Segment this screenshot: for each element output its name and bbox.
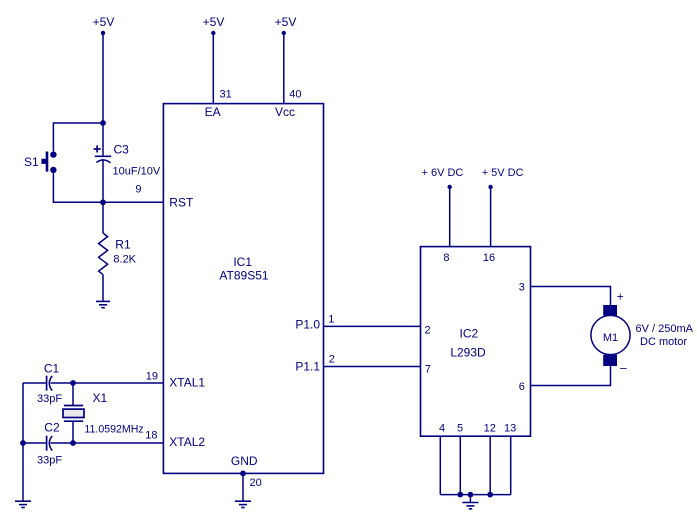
pin number 40 (289, 89, 301, 101)
svg-text:R1: R1 (115, 238, 131, 252)
svg-text:P1.1: P1.1 (295, 360, 320, 374)
svg-text:EA: EA (205, 105, 221, 119)
ground left rail (15, 501, 31, 507)
svg-text:11.0592MHz: 11.0592MHz (84, 424, 143, 436)
pin number 16 (483, 252, 495, 264)
label C1 (44, 362, 60, 376)
wire ground stem (469, 495, 471, 502)
wire IC2 pin 13 to ground bus (510, 436, 512, 494)
wire +5V DC to IC2 pin 16 (490, 187, 492, 247)
label IC2 (460, 327, 479, 341)
label R1 (115, 238, 131, 252)
wire left rail to C2 (23, 442, 46, 444)
svg-text:8.2K: 8.2K (113, 254, 136, 266)
label L293D (450, 346, 486, 360)
pin name P1.1 (295, 360, 320, 374)
svg-text:+ 6V DC: + 6V DC (422, 167, 464, 179)
power +6V DC label (422, 167, 464, 179)
svg-text:31: 31 (220, 89, 232, 101)
pin number 12 (484, 423, 496, 435)
svg-text:C2: C2 (44, 421, 60, 435)
svg-text:C3: C3 (114, 143, 130, 157)
wire junction to switch top (53, 123, 103, 151)
pin number 20 (250, 477, 262, 489)
wire left rail to C1 (23, 382, 46, 384)
svg-text:X1: X1 (93, 391, 108, 405)
svg-text:L293D: L293D (450, 346, 486, 360)
svg-text:RST: RST (169, 196, 194, 210)
svg-text:4: 4 (439, 423, 445, 435)
ground IC2 bus (462, 503, 478, 509)
pin name XTAL2 (169, 435, 205, 449)
svg-text:3: 3 (519, 282, 525, 294)
svg-text:P1.0: P1.0 (295, 318, 320, 332)
wire IC1 P1.0 (pin 1) to IC2 pin 2 (324, 325, 421, 327)
power +5V DC label (482, 167, 524, 179)
svg-text:S1: S1 (24, 155, 39, 169)
svg-text:20: 20 (250, 477, 262, 489)
node RST junction (100, 199, 106, 205)
label IC1 (233, 255, 252, 269)
IC U2 (IC2 L293D) body (421, 247, 531, 437)
label C3 (114, 143, 130, 157)
wire IC2 pin 6 to motor - (531, 366, 611, 386)
pin name XTAL1 (169, 376, 205, 390)
wire RST node to IC1 pin 9 (103, 201, 163, 203)
resistor R1 (99, 202, 108, 300)
label DC motor (640, 336, 687, 348)
wire IC2 pin 4 to ground bus (439, 436, 441, 494)
pin number 2 (IC2 input) (425, 324, 431, 336)
svg-text:7: 7 (425, 363, 431, 375)
pin number 4 (439, 423, 445, 435)
pin name Vcc (275, 105, 295, 119)
pin name GND (231, 454, 258, 468)
label 33pF (C1) (37, 393, 62, 405)
pin name RST (169, 196, 194, 210)
svg-text:10uF/10V: 10uF/10V (113, 166, 161, 178)
wire IC2 pin 3 to motor + (531, 287, 611, 306)
svg-text:13: 13 (504, 423, 516, 435)
label 10uF/10V (113, 166, 161, 178)
svg-text:16: 16 (483, 252, 495, 264)
label motor - terminal (620, 361, 627, 375)
label S1 (24, 155, 39, 169)
svg-text:19: 19 (146, 370, 158, 382)
pin number 1 (328, 314, 334, 326)
svg-text:9: 9 (135, 184, 141, 196)
wire switch bottom to RST node (53, 173, 103, 202)
power +5V rail 3 label (275, 15, 297, 29)
svg-text:+: + (617, 290, 624, 304)
svg-text:XTAL1: XTAL1 (169, 376, 205, 390)
pin number 19 (146, 370, 158, 382)
node ground bus pin 5 (457, 492, 463, 498)
svg-text:–: – (620, 361, 627, 375)
svg-text:5: 5 (457, 423, 463, 435)
svg-text:DC motor: DC motor (640, 336, 687, 348)
svg-text:40: 40 (289, 89, 301, 101)
pin number 3 (519, 282, 525, 294)
node ground bus stem (468, 492, 474, 498)
wire +5V to IC1 pin 40 (Vcc) (283, 33, 285, 104)
svg-text:12: 12 (484, 423, 496, 435)
node switch-top junction (100, 120, 106, 126)
svg-text:IC2: IC2 (460, 327, 479, 341)
capacitor C1 (47, 376, 53, 391)
svg-text:8: 8 (443, 252, 449, 264)
svg-text:M1: M1 (603, 332, 618, 344)
power +5V rail 1 terminal dot (101, 31, 105, 35)
label 8.2K (113, 254, 136, 266)
IC U1 (IC1 AT89S51) body (163, 104, 323, 474)
label M1 (603, 332, 618, 344)
capacitor C3 (94, 145, 112, 162)
crystal X1 (63, 383, 84, 443)
power +5V DC terminal dot (488, 185, 492, 189)
pin number 7 (425, 363, 431, 375)
capacitor C2 (47, 436, 53, 451)
pin number 5 (457, 423, 463, 435)
power +5V rail 2 terminal dot (211, 31, 215, 35)
label X1 (93, 391, 108, 405)
svg-text:+5V: +5V (93, 15, 115, 29)
svg-text:+5V: +5V (275, 15, 297, 29)
svg-text:33pF: 33pF (37, 393, 62, 405)
node left rail junction (20, 440, 26, 446)
pin number 31 (220, 89, 232, 101)
pin number 13 (504, 423, 516, 435)
wire IC1 P1.1 (pin 2) to IC2 pin 7 (324, 366, 421, 368)
wire GND pin to ground (242, 473, 244, 500)
svg-text:18: 18 (145, 430, 157, 442)
pin name P1.0 (295, 318, 320, 332)
svg-text:GND: GND (231, 454, 258, 468)
svg-text:1: 1 (328, 314, 334, 326)
pin number 8 (443, 252, 449, 264)
svg-text:6: 6 (519, 381, 525, 393)
pin number 2 (IC1 P1.1) (329, 353, 335, 365)
label 11.0592MHz (84, 424, 143, 436)
label motor + terminal (617, 290, 624, 304)
svg-text:Vcc: Vcc (275, 105, 295, 119)
svg-text:AT89S51: AT89S51 (219, 269, 268, 283)
ground IC1 pin 20 (235, 501, 251, 507)
pin number 9 (135, 184, 141, 196)
svg-text:2: 2 (425, 324, 431, 336)
node XTAL1 junction (70, 380, 76, 386)
node ground bus pin 12 (487, 492, 493, 498)
node IC1 GND pin 20 (240, 471, 246, 477)
node XTAL2 junction (70, 440, 76, 446)
pin name EA (205, 105, 221, 119)
label 33pF (C2) (37, 455, 62, 467)
motor M1 (591, 305, 630, 366)
power +6V DC terminal dot (448, 185, 452, 189)
label AT89S51 (219, 269, 268, 283)
wire IC2 pin 12 to ground bus (489, 436, 491, 494)
wire C1 to XTAL1 node (51, 382, 164, 384)
wire IC2 pin 5 to ground bus (459, 436, 461, 494)
pin number 18 (145, 430, 157, 442)
svg-text:+5V: +5V (203, 15, 225, 29)
wire left rail vertical (22, 383, 24, 501)
svg-text:6V / 250mA: 6V / 250mA (636, 323, 694, 335)
switch S1 (41, 151, 56, 173)
power +5V rail 1 label (93, 15, 115, 29)
wire ground bus (440, 494, 510, 496)
svg-text:2: 2 (329, 353, 335, 365)
label 6V / 250mA (636, 323, 694, 335)
pin number 6 (519, 381, 525, 393)
svg-text:33pF: 33pF (37, 455, 62, 467)
ground below R1 (96, 301, 110, 307)
wire C2 to XTAL2 node and IC1 pin 18 (51, 442, 164, 444)
power +5V rail 3 terminal dot (282, 31, 286, 35)
wire +6V DC to IC2 pin 8 (449, 187, 451, 247)
svg-text:XTAL2: XTAL2 (169, 435, 205, 449)
wire +5V rail 1 to C3 top (102, 33, 104, 156)
wire C3 bottom to RST node (102, 160, 104, 203)
wire +5V to IC1 pin 31 (EA) (212, 33, 214, 104)
label C2 (44, 421, 60, 435)
svg-text:IC1: IC1 (233, 255, 252, 269)
svg-text:C1: C1 (44, 362, 60, 376)
power +5V rail 2 label (203, 15, 225, 29)
svg-text:+ 5V DC: + 5V DC (482, 167, 524, 179)
